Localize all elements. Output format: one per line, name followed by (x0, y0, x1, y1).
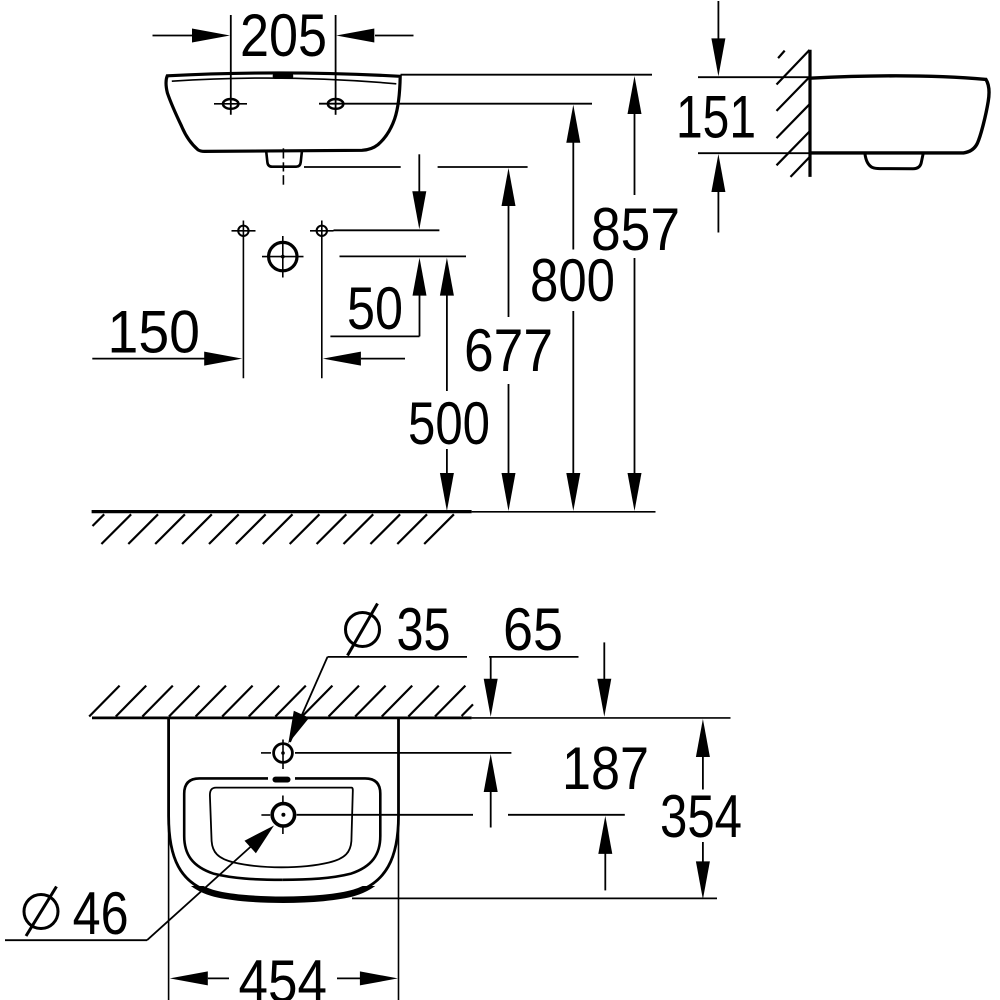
trap side (865, 154, 923, 169)
wall hatching plan (89, 686, 473, 717)
drain plan (261, 796, 624, 835)
svg-text:151: 151 (676, 84, 756, 151)
basin outer outline plan (169, 718, 399, 900)
hole level extension line (319, 103, 592, 105)
drain level extension line (340, 255, 467, 257)
svg-text:857: 857 (591, 196, 680, 263)
wall line side (808, 50, 811, 177)
basin outer rim shadow plan (169, 718, 399, 900)
DIM 800 (530, 105, 615, 511)
svg-text:46: 46 (73, 880, 129, 947)
DIM 150 (92, 299, 405, 366)
DIM 50 (330, 154, 426, 342)
drain mark (262, 236, 304, 278)
basin outline side (810, 76, 989, 153)
overflow slot plan (273, 777, 291, 783)
svg-text:454: 454 (239, 948, 328, 1000)
DIM 454 (170, 948, 398, 1000)
trap level extension line (304, 166, 528, 168)
DIM 500 (408, 258, 490, 511)
DIM 205 (153, 2, 414, 115)
454 extension line left (168, 718, 170, 1000)
basin outline front (166, 73, 400, 151)
DIM 354 (660, 719, 742, 899)
basin inner outline plan (210, 788, 353, 868)
svg-text:50: 50 (347, 275, 403, 342)
basin middle outline plan (184, 778, 380, 879)
trap front (266, 151, 302, 166)
cross mark right (310, 221, 334, 379)
svg-text:35: 35 (397, 596, 451, 663)
trap centerline (282, 148, 284, 184)
DIM 677 (464, 168, 553, 511)
ground hatching (93, 514, 454, 544)
label dia 35 (288, 596, 467, 744)
wall line plan (92, 717, 731, 720)
DIM 151 (676, 1, 810, 233)
svg-text:677: 677 (464, 317, 553, 384)
GROUND LINE (92, 510, 656, 513)
basin inner rim line front (172, 78, 396, 84)
svg-text:205: 205 (240, 2, 327, 69)
tap hole slot front (273, 73, 294, 79)
svg-text:354: 354 (660, 783, 742, 850)
fixing hole right front (328, 99, 344, 109)
label dia 46 (5, 826, 274, 948)
DIM 187 (562, 642, 649, 890)
454 extension line right (398, 718, 400, 1000)
DIM 65 (484, 596, 579, 828)
wall hatching side (777, 50, 810, 177)
svg-text:65: 65 (503, 596, 563, 663)
bottom extension line plan (352, 897, 717, 899)
DIM 857 (591, 76, 680, 511)
svg-text:500: 500 (408, 390, 490, 457)
cross mark left (232, 221, 256, 379)
tap hole plan (261, 740, 511, 770)
svg-text:150: 150 (108, 299, 201, 366)
top edge extension line (401, 74, 653, 76)
cross level extension line (334, 229, 440, 231)
svg-text:187: 187 (562, 735, 649, 802)
fixing hole left front (214, 99, 247, 109)
